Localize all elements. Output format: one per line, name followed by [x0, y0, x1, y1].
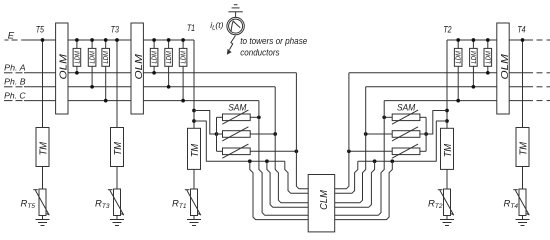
- svg-text:LDM: LDM: [166, 51, 173, 64]
- svg-text:Ph. C: Ph. C: [4, 90, 26, 100]
- svg-text:RT1: RT1: [172, 198, 187, 210]
- svg-text:RT2: RT2: [428, 198, 443, 210]
- svg-text:conductors: conductors: [240, 47, 280, 57]
- svg-text:SAM: SAM: [228, 103, 247, 113]
- svg-text:OLM: OLM: [59, 53, 70, 79]
- svg-text:LDM: LDM: [152, 51, 159, 64]
- svg-text:iL(t): iL(t): [210, 20, 223, 32]
- svg-text:OLM: OLM: [134, 53, 145, 79]
- svg-text:TM: TM: [39, 141, 50, 155]
- svg-text:RT5: RT5: [21, 198, 36, 210]
- svg-text:to towers or phase: to towers or phase: [240, 36, 307, 46]
- svg-text:TM: TM: [443, 143, 454, 157]
- svg-text:LDM: LDM: [74, 51, 81, 64]
- svg-text:Ph. B: Ph. B: [4, 77, 26, 87]
- svg-text:T3: T3: [111, 25, 120, 36]
- svg-text:LDM: LDM: [181, 51, 188, 64]
- svg-text:OLM: OLM: [500, 53, 511, 79]
- svg-text:LDM: LDM: [103, 51, 110, 64]
- svg-text:E: E: [8, 31, 15, 42]
- svg-text:LDM: LDM: [456, 51, 463, 64]
- svg-text:TM: TM: [190, 143, 201, 157]
- svg-text:T4: T4: [517, 25, 525, 36]
- svg-text:T5: T5: [36, 25, 45, 36]
- svg-text:T2: T2: [443, 25, 452, 36]
- svg-text:CLM: CLM: [319, 190, 330, 210]
- svg-text:TM: TM: [113, 141, 124, 155]
- svg-text:LDM: LDM: [485, 51, 492, 64]
- svg-text:Ph. A: Ph. A: [4, 63, 26, 73]
- svg-text:RT4: RT4: [504, 198, 519, 210]
- svg-text:TM: TM: [519, 141, 530, 155]
- svg-text:SAM: SAM: [397, 103, 416, 113]
- svg-text:T1: T1: [187, 23, 195, 34]
- svg-text:LDM: LDM: [90, 51, 97, 64]
- svg-text:LDM: LDM: [471, 51, 478, 64]
- svg-text:RT3: RT3: [95, 198, 110, 210]
